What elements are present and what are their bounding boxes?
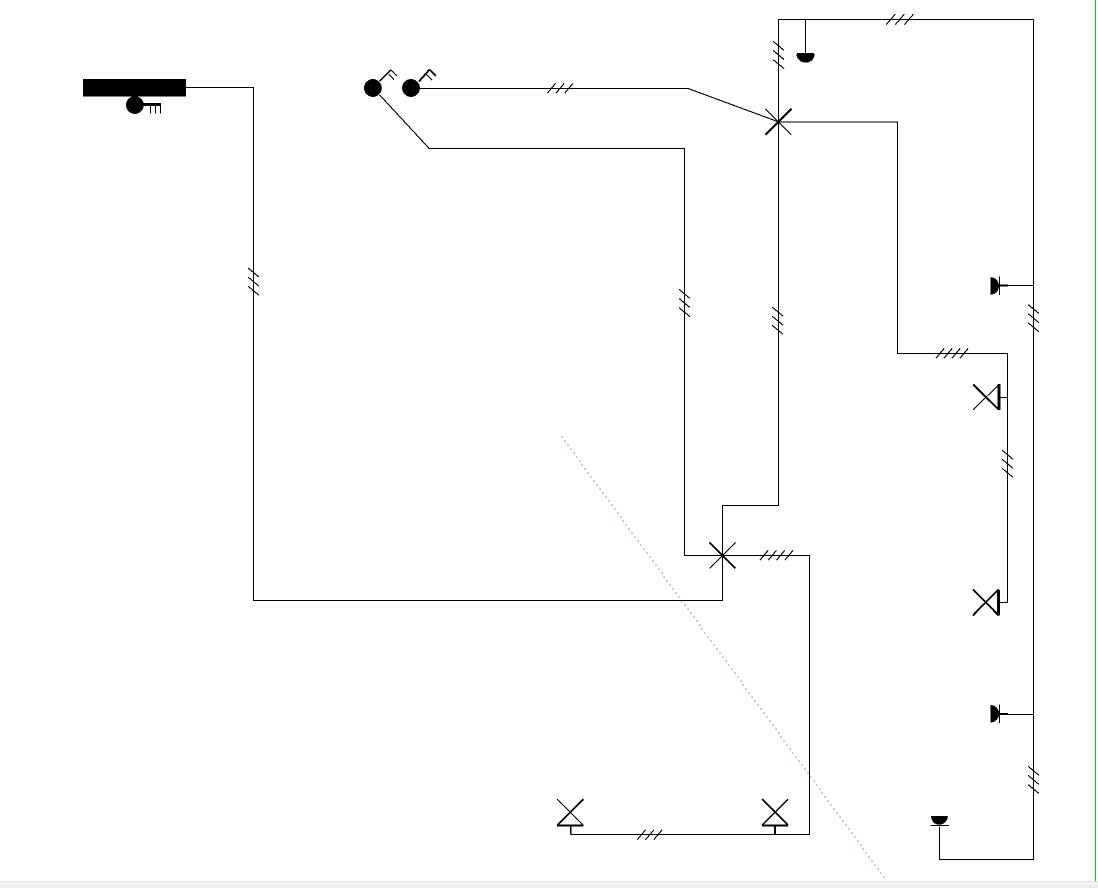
wire panel to junction J2 (down left side and along bottom) xyxy=(186,88,722,601)
switch S1 xyxy=(364,79,382,97)
junction box J2 xyxy=(710,543,736,569)
hatch 3 on riser upper xyxy=(1028,305,1039,332)
socket outlet K1 xyxy=(973,384,1007,410)
green margin line xyxy=(1095,0,1097,881)
wall lamp W1 stub xyxy=(1000,285,1034,287)
wire S2 to junction J1 xyxy=(420,89,779,122)
hatch 3 on top run xyxy=(886,14,913,24)
panel switch circle xyxy=(126,96,144,114)
wire J1 right to socket column xyxy=(779,122,1008,603)
ceiling lamp L1 (bar + dome) xyxy=(797,54,815,63)
bowl lamp W3 (dome + bar) xyxy=(930,816,949,826)
wire J1 down to J2 xyxy=(723,122,779,556)
socket outlet K2 xyxy=(973,589,999,615)
wire S1 to J2 xyxy=(380,95,723,556)
hatch 4 on socket feed horizontal xyxy=(936,349,968,359)
lamp L2 (cross + bar) xyxy=(557,799,583,834)
hatch 3 on bottom lamp wire xyxy=(637,830,662,840)
distribution board panel xyxy=(83,79,186,96)
hatch 3 on socket column xyxy=(1002,450,1013,477)
wire J1 up and top run to right riser xyxy=(779,20,1034,122)
hatch 3 on panel drop wire xyxy=(248,268,259,295)
switch S2 xyxy=(402,79,420,97)
switch S1 flag xyxy=(380,70,397,82)
wire J2 to bottom lamps xyxy=(571,556,810,835)
wall lamp W2 stub xyxy=(1000,714,1034,716)
ceiling lamp L1 stub xyxy=(805,20,807,54)
blue dotted reference line xyxy=(562,437,885,878)
right riser main run xyxy=(940,20,1034,860)
gray bottom bar xyxy=(0,881,1098,883)
hatch 3 on S1 drop wire xyxy=(679,289,690,316)
hatch 3 on J1 lower wire xyxy=(772,307,783,334)
panel comb (3-pole marks) xyxy=(144,105,162,114)
hatch 3 on riser lower xyxy=(1028,766,1039,793)
junction box J1 xyxy=(766,109,792,135)
hatch 3 on S2 wire xyxy=(547,83,573,93)
wall lamp W1 (bar + dome) xyxy=(990,277,999,296)
hatch 4 right of J2 xyxy=(760,550,793,560)
hatch 3 on J1 upper wire xyxy=(773,41,784,68)
switch S2 flag xyxy=(419,69,436,81)
lamp L3 (cross + bar) xyxy=(762,799,788,834)
wall lamp W2 (bar + dome) xyxy=(990,704,999,723)
